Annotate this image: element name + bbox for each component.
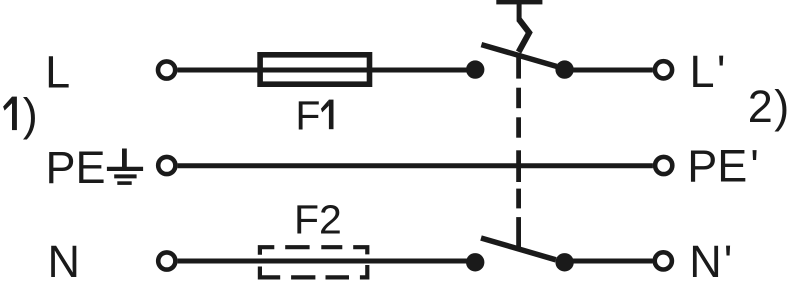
svg-text:L': L'	[690, 46, 726, 97]
actuator top bar	[496, 0, 542, 4]
label F1	[295, 92, 333, 138]
svg-text:2: 2	[748, 81, 773, 132]
svg-text:): )	[23, 89, 38, 140]
svg-text:PE: PE	[46, 142, 106, 193]
junction dot S2 left	[466, 253, 484, 271]
ground symbol (earth at PE)	[107, 149, 143, 184]
wire: S2 to N' terminal	[564, 259, 653, 264]
terminal N-out	[655, 252, 672, 269]
fuse F2 (dashed outline)	[260, 247, 367, 277]
svg-text:F2: F2	[294, 197, 342, 243]
wire: F1 to switch S1	[370, 68, 475, 73]
junction dot S2 right	[555, 253, 573, 271]
thermal release zigzag	[519, 20, 530, 53]
junction dot S1 right	[555, 60, 573, 78]
wire: L terminal to fuse F1	[177, 68, 262, 73]
switch S2 lever	[481, 238, 556, 260]
switch S1 lever	[481, 45, 556, 67]
svg-text:N': N'	[689, 236, 732, 286]
wire: S1 to L' terminal	[564, 68, 653, 73]
svg-text:): )	[774, 81, 789, 132]
actuator stem	[517, 2, 522, 22]
wire: N terminal to switch S2	[178, 259, 475, 264]
terminal N-in	[158, 252, 175, 269]
svg-text:N: N	[48, 236, 81, 286]
mechanical linkage (dashed)	[516, 53, 521, 249]
terminal PE-in	[158, 157, 175, 174]
terminal L-in	[158, 61, 175, 78]
fuse F1	[257, 55, 372, 84]
svg-text:F: F	[295, 92, 320, 138]
svg-text:L: L	[45, 46, 70, 97]
terminal L-out	[655, 61, 672, 78]
note 1)	[3, 89, 38, 140]
wire PE	[178, 163, 653, 168]
junction dot S1 left	[466, 60, 484, 78]
note 2)	[748, 81, 790, 132]
terminal PE-out	[655, 157, 672, 174]
